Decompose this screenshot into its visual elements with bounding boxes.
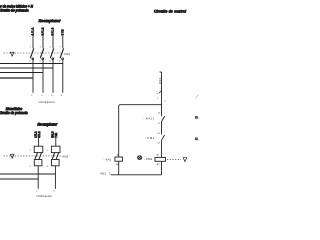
svg-text:- KM2: - KM2 — [145, 136, 155, 140]
wire: control branch upper — [161, 72, 163, 116]
actuator triangle (bottom schematic) — [10, 154, 14, 158]
svg-text:7/N: 7/N — [60, 29, 64, 35]
wire below unit 1 — [37, 166, 39, 189]
mechanical link dashed (top schematic) — [4, 52, 62, 54]
svg-text:-KM2: -KM2 — [62, 155, 69, 158]
svg-text:3/L2: 3/L2 — [41, 27, 45, 35]
actuator triangle (KM1 coil) — [183, 158, 187, 162]
node label 7/N (rotated) — [60, 29, 64, 35]
svg-text:Circuito de control: Circuito de control — [154, 9, 186, 13]
switch blade pole 2 — [40, 48, 44, 59]
contactor KM2 unit 2 blade a — [52, 153, 55, 160]
wire L3 lower — [52, 60, 54, 93]
wire L3 top — [52, 35, 54, 48]
svg-text:KM1: KM1 — [158, 77, 162, 84]
wire between KA1 and KM2 contacts — [161, 122, 163, 135]
node label 5/L3 (rotated) — [51, 27, 55, 35]
page background — [0, 0, 200, 200]
bus wire B (bottom schematic) — [0, 178, 38, 180]
wire L2 lower — [42, 60, 44, 93]
node label 7/N (rotated, unit 2) — [55, 133, 58, 138]
wire L1 top — [32, 35, 34, 48]
svg-text:3/L2: 3/L2 — [38, 131, 41, 138]
contactor KM2 unit 2 (bottom terminal box) — [52, 160, 60, 166]
contactor KM2 unit 2 (top terminal box) — [51, 146, 60, 152]
bottom rail of control loop — [111, 174, 162, 176]
bus wire A (bottom schematic) — [0, 173, 55, 175]
svg-text:KM1 . 5: KM1 . 5 — [100, 172, 111, 175]
svg-text:- KA1(: - KA1( — [143, 117, 154, 121]
switch blade pole 4 — [60, 48, 64, 59]
actuator triangle (top schematic) — [10, 52, 14, 56]
contactor KM2 unit 2 blade b — [56, 153, 59, 160]
feeder bus wire to L1 (heavy) — [0, 77, 33, 79]
wire below KM1 coil — [161, 161, 163, 174]
signal lamp — [138, 156, 142, 160]
feeder bus wire to N — [0, 63, 63, 65]
coil -KA1 — [115, 157, 123, 161]
node label 1/L1 (rotated, unit 1) — [34, 131, 37, 138]
svg-text:1/L1: 1/L1 — [31, 27, 35, 35]
svg-text:-KM2: -KM2 — [63, 53, 70, 56]
supply tick at top of control branch — [160, 71, 162, 73]
contact -KM2 (control) — [162, 135, 165, 141]
svg-text:Circuito de potencia: Circuito de potencia — [0, 111, 28, 115]
faint mark right edge (mid) — [196, 95, 199, 99]
svg-text:Circuito de potencia: Circuito de potencia — [0, 9, 29, 13]
mechanical link dashed from KM1 coil — [167, 158, 181, 160]
legend mark right edge (upper) — [196, 117, 200, 120]
wire below KA1 coil — [118, 161, 120, 175]
feeder bus wire to L2 — [0, 72, 43, 74]
node label 1/L1 (rotated) — [31, 27, 35, 35]
node label 3/L2 (rotated) — [41, 27, 45, 35]
wire below unit 2 — [54, 166, 56, 189]
net label (rotated) on control branch — [158, 77, 162, 84]
legend mark right edge (lower) — [196, 138, 200, 141]
wire L1 lower — [32, 60, 34, 93]
wire L2 top — [42, 35, 44, 48]
contact -KA1 (control) — [162, 116, 165, 122]
wire into KM2 unit 1 — [38, 138, 40, 146]
node label 3/L2 (rotated, unit 1) — [38, 131, 41, 138]
contactor KM2 unit 1 (top terminal box) — [34, 146, 43, 152]
svg-text:Utilización: Utilización — [39, 100, 56, 104]
node label 5/L3 (rotated, unit 2) — [52, 131, 55, 138]
switch blade pole 1 — [30, 48, 34, 59]
wire into KM2 unit 2 — [55, 138, 57, 146]
mechanical link dashed (bottom schematic) — [4, 155, 62, 157]
svg-text:Reemplazar: Reemplazar — [38, 123, 58, 127]
contactor KM2 unit 1 blade a — [35, 153, 38, 160]
contactor KM2 unit 1 (bottom terminal box) — [34, 160, 42, 166]
svg-text:5/L3: 5/L3 — [51, 27, 55, 35]
svg-text:- KA1: - KA1 — [104, 158, 112, 162]
switch blade pole 3 — [50, 48, 54, 59]
wire between KM2 contact and KM1 coil — [161, 140, 163, 157]
coil -KM1 — [155, 157, 166, 161]
wire N top — [62, 35, 64, 48]
svg-text:- KM1: - KM1 — [144, 157, 153, 161]
contactor KM2 unit 1 blade b — [39, 153, 42, 160]
svg-text:s: s — [157, 93, 158, 95]
wire N lower — [62, 60, 64, 93]
svg-text:Reemplazar: Reemplazar — [39, 19, 62, 23]
svg-text:Utilización: Utilización — [37, 194, 53, 198]
top rail of control loop — [119, 105, 162, 157]
svg-text:7/N: 7/N — [55, 133, 58, 138]
feeder bus wire to L3 — [0, 67, 53, 69]
